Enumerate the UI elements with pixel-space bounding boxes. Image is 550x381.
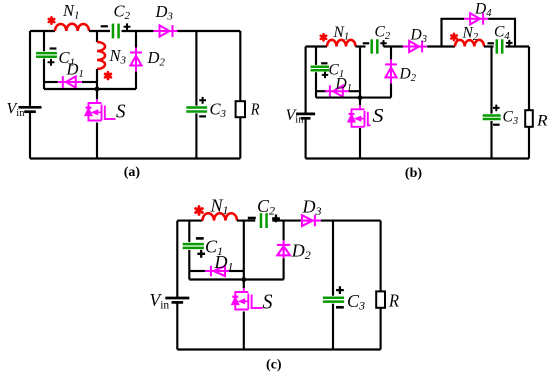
svg-text:R: R bbox=[388, 291, 399, 311]
svg-text:(c): (c) bbox=[266, 358, 282, 373]
svg-text:(b): (b) bbox=[405, 166, 422, 181]
svg-text:(a): (a) bbox=[124, 165, 141, 180]
svg-text:S: S bbox=[373, 106, 384, 127]
svg-text:S: S bbox=[263, 290, 273, 314]
svg-text:S: S bbox=[116, 101, 126, 123]
svg-text:R: R bbox=[536, 113, 548, 130]
svg-text:R: R bbox=[250, 100, 260, 119]
